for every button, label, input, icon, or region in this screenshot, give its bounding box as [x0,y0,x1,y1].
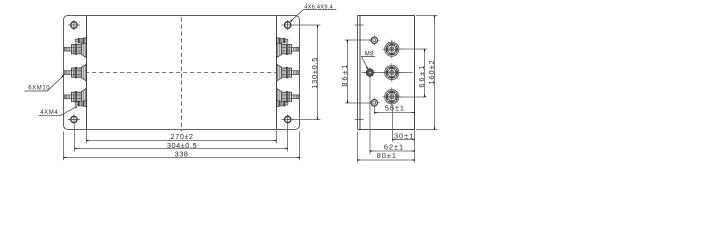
svg-text:30±1: 30±1 [394,131,414,140]
svg-text:4XM4: 4XM4 [40,110,58,116]
svg-text:270±2: 270±2 [171,132,194,141]
svg-text:80±1: 80±1 [377,151,397,160]
svg-text:86±1: 86±1 [340,63,349,87]
svg-text:56±1: 56±1 [385,104,405,113]
svg-text:338: 338 [175,150,189,159]
svg-text:130±0.5: 130±0.5 [310,57,319,89]
svg-text:66±1: 66±1 [417,64,426,88]
svg-text:62±1: 62±1 [384,142,404,151]
svg-text:160±2: 160±2 [427,59,436,85]
